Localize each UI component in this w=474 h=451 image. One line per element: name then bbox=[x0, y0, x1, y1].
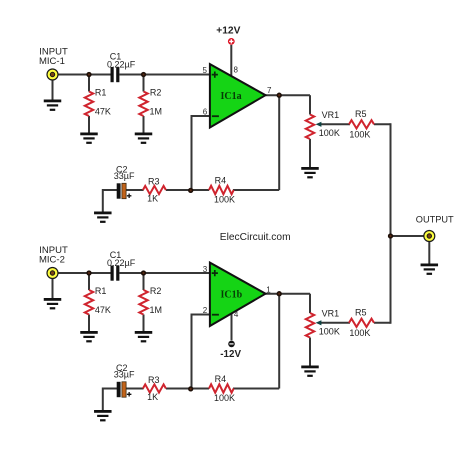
svg-text:1: 1 bbox=[266, 286, 271, 295]
svg-text:6: 6 bbox=[203, 108, 208, 117]
svg-text:IC1b: IC1b bbox=[221, 290, 243, 301]
svg-text:MIC-2: MIC-2 bbox=[39, 254, 65, 265]
svg-text:MIC-1: MIC-1 bbox=[39, 56, 65, 67]
svg-text:ElecCircuit.com: ElecCircuit.com bbox=[220, 232, 291, 243]
svg-text:7: 7 bbox=[267, 86, 272, 95]
svg-text:-12V: -12V bbox=[220, 349, 241, 360]
svg-text:4: 4 bbox=[234, 310, 239, 319]
svg-text:8: 8 bbox=[234, 66, 239, 75]
svg-text:OUTPUT: OUTPUT bbox=[416, 214, 454, 224]
svg-text:+12V: +12V bbox=[216, 25, 240, 36]
svg-text:IC1a: IC1a bbox=[221, 91, 242, 102]
svg-text:3: 3 bbox=[203, 265, 208, 274]
svg-text:5: 5 bbox=[203, 66, 208, 75]
svg-text:2: 2 bbox=[203, 306, 208, 315]
